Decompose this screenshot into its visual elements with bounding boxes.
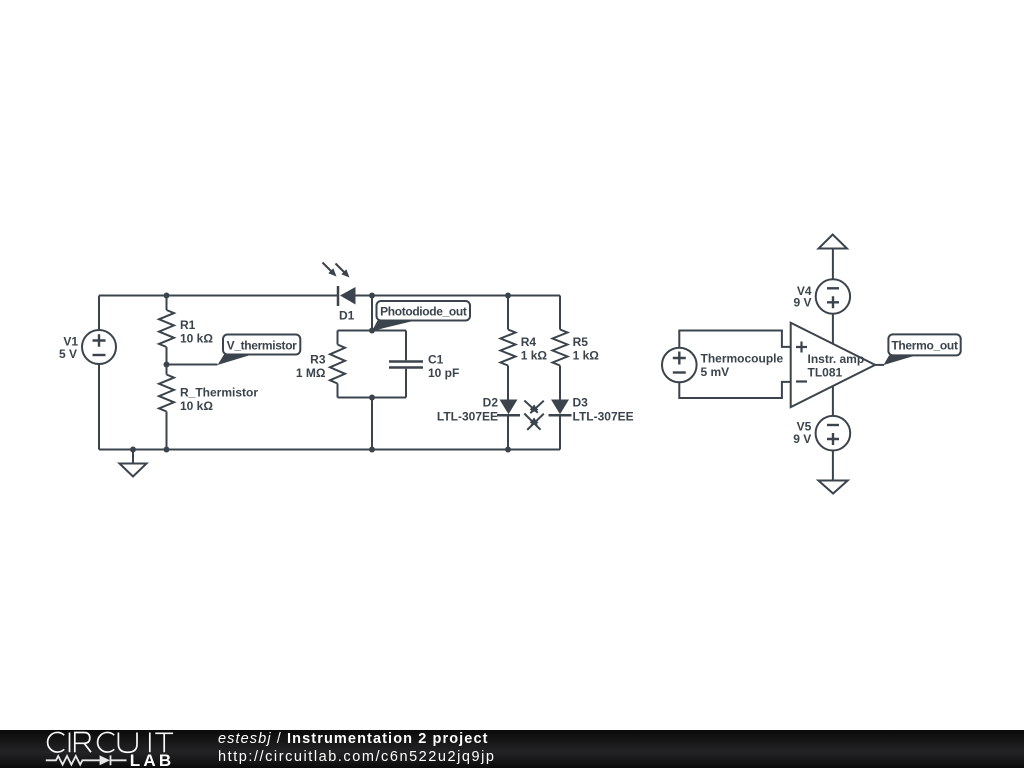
logo resistor-diode (46, 755, 127, 765)
svg-text:1 kΩ: 1 kΩ (573, 348, 600, 362)
svg-text:5 mV: 5 mV (701, 365, 730, 379)
logo letter U (118, 733, 137, 753)
ground GND2 (818, 481, 847, 494)
svg-text:Photodiode_out: Photodiode_out (380, 305, 467, 319)
voltage source V5 (816, 416, 851, 451)
svg-text:Instr. amp: Instr. amp (808, 352, 865, 366)
logo letter R (75, 733, 91, 753)
thermocouple loop wires (679, 331, 790, 399)
svg-text:R3: R3 (310, 352, 326, 366)
logo letter C (48, 732, 65, 752)
wire V4 to opamp (832, 314, 834, 344)
resistor R5 (553, 330, 568, 400)
wire top rail right (356, 295, 561, 297)
wire top rail left (99, 295, 338, 297)
svg-text:C1: C1 (428, 352, 444, 366)
LED D3 arrows (527, 401, 544, 430)
wire bottom rail (99, 449, 560, 451)
label R_Thermistor 10k (180, 385, 258, 413)
footer logo CIRCUIT LAB (0, 729, 200, 768)
capacitor C1 (389, 331, 423, 398)
svg-text:R1: R1 (180, 318, 196, 332)
svg-text:D2: D2 (483, 396, 499, 410)
node dot D1 out (369, 293, 375, 299)
flag Thermo_out (884, 334, 961, 365)
label D3 (573, 396, 634, 424)
logo letter I (69, 733, 71, 753)
LED D3 (549, 400, 572, 450)
power arrow VCC (819, 235, 848, 280)
resistor R4 (501, 296, 516, 400)
voltage source V4 (816, 279, 850, 313)
svg-text:1 MΩ: 1 MΩ (296, 366, 326, 380)
label R3 1M (296, 352, 326, 380)
logo letter C (98, 732, 115, 752)
svg-text:R4: R4 (521, 335, 537, 349)
resistor R_Thermistor (159, 365, 174, 450)
flag Photodiode_out (372, 301, 470, 331)
voltage source V1 (82, 330, 116, 364)
svg-text:9 V: 9 V (793, 295, 811, 309)
LED D2 (497, 400, 520, 450)
node dot R4 top (505, 293, 511, 299)
resistor R3 (330, 331, 345, 398)
wire to V_thermistor flag (167, 364, 218, 366)
label R5 1k (573, 335, 600, 362)
svg-text:5 V: 5 V (59, 347, 77, 361)
ground GND1 (120, 447, 147, 477)
label V5 9V (793, 420, 811, 447)
svg-text:LTL-307EE: LTL-307EE (437, 410, 498, 424)
label R1 10k (180, 318, 213, 345)
footer bar (0, 730, 1024, 768)
svg-text:9 V: 9 V (793, 432, 811, 446)
label Instr. amp TL081 (808, 352, 865, 380)
op-amp U1 (791, 323, 875, 407)
wire left rail (98, 296, 100, 450)
node dot R_Thermistor bottom (164, 447, 170, 453)
node dot bottom rail photodiode (369, 447, 375, 453)
node dot mid thermistor (164, 362, 170, 368)
svg-text:LTL-307EE: LTL-307EE (573, 410, 634, 424)
svg-text:R_Thermistor: R_Thermistor (180, 385, 258, 399)
wire D1 node down (371, 296, 373, 331)
node dot block top (369, 328, 375, 334)
voltage source V3 Thermocouple (662, 348, 697, 383)
wire block top (338, 330, 407, 332)
footer title text (218, 730, 496, 767)
wire block bottom (338, 397, 407, 399)
logo letter I (149, 733, 151, 753)
label D1 (339, 309, 355, 323)
wire block bottom down (371, 398, 373, 450)
svg-text:Thermocouple: Thermocouple (701, 352, 784, 366)
wire R5 branch top (559, 296, 561, 330)
node dot block bottom (369, 395, 375, 401)
resistor R1 (159, 296, 174, 365)
LED D2 arrows (524, 401, 540, 430)
label R4 1k (521, 335, 548, 362)
node dot D2 bottom (505, 447, 511, 453)
svg-text:1 kΩ: 1 kΩ (521, 348, 548, 362)
svg-text:LAB: LAB (130, 751, 175, 768)
label V1 5V (59, 335, 78, 361)
svg-text:10 kΩ: 10 kΩ (180, 331, 213, 345)
svg-text:D1: D1 (339, 309, 355, 323)
label C1 10pF (428, 352, 459, 380)
wire V5 to ground (832, 451, 834, 481)
label V4 9V (793, 284, 811, 310)
wire opamp output (875, 364, 884, 366)
svg-text:Thermo_out: Thermo_out (891, 339, 958, 353)
svg-text:TL081: TL081 (808, 366, 843, 380)
wire opamp to V5 (832, 386, 834, 416)
svg-text:V_thermistor: V_thermistor (227, 338, 298, 352)
logo letter T (155, 733, 173, 752)
svg-text:10 kΩ: 10 kΩ (180, 399, 213, 413)
svg-text:R5: R5 (573, 335, 589, 349)
svg-text:D3: D3 (573, 396, 589, 410)
photodiode D1 (323, 263, 356, 307)
svg-text:10 pF: 10 pF (428, 366, 459, 380)
flag V_thermistor (218, 335, 301, 366)
label D2 (437, 396, 498, 424)
node dot top R1 (164, 293, 170, 299)
label Thermocouple 5mV (701, 352, 784, 380)
